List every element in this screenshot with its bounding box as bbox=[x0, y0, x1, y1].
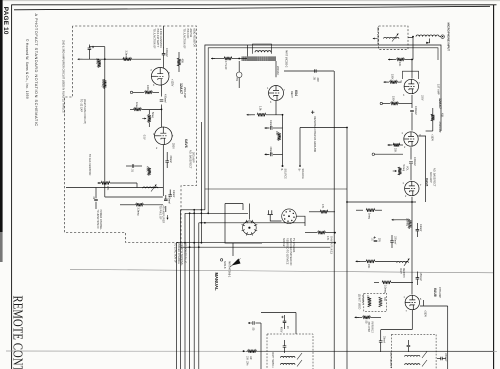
svg-text:SOCKET: SOCKET bbox=[282, 238, 285, 248]
capacitor 180mmf c bbox=[441, 357, 442, 360]
label source B+ bbox=[299, 165, 301, 167]
bundle wire 3 bbox=[189, 213, 191, 369]
bundle wire 5 bbox=[198, 223, 200, 369]
svg-text:PART: PART bbox=[399, 268, 402, 275]
capacitor elec 01-25 bbox=[374, 240, 378, 241]
mic arrow left bbox=[373, 38, 378, 40]
svg-text:IN RUN 13: IN RUN 13 bbox=[371, 322, 373, 334]
mic input terminal bbox=[441, 35, 444, 38]
svg-text:PART MER38-5: PART MER38-5 bbox=[389, 352, 392, 369]
resistor 100K grid bbox=[133, 91, 144, 93]
svg-text:1meg: 1meg bbox=[135, 102, 138, 109]
svg-text:20K: 20K bbox=[367, 264, 370, 269]
resistor 3.3 h bbox=[98, 182, 102, 184]
wire mic junction bbox=[412, 37, 414, 60]
wire plug to socket bbox=[270, 218, 281, 221]
TB2 cap bbox=[407, 345, 411, 346]
svg-text:TO .02 CAP: TO .02 CAP bbox=[80, 99, 83, 112]
svg-text:30mmf: 30mmf bbox=[382, 336, 384, 343]
mic input coil bbox=[416, 35, 439, 37]
mic transformer coil bbox=[384, 37, 400, 38]
svg-text:PART MIC280-2: PART MIC280-2 bbox=[285, 50, 288, 68]
ac plug P1 bbox=[268, 210, 273, 218]
svg-text:© Howard W. Sams & Co., Inc. 1: © Howard W. Sams & Co., Inc. 1959 bbox=[25, 39, 29, 99]
svg-text:POWER CHANNEL: POWER CHANNEL bbox=[99, 210, 102, 231]
ground arrow feed bbox=[78, 58, 83, 60]
svg-text:4TH AMPLIFIER: 4TH AMPLIFIER bbox=[162, 206, 165, 224]
TB1 cap bbox=[283, 346, 287, 347]
svg-text:OHM IN RUN 13: OHM IN RUN 13 bbox=[329, 236, 332, 254]
volume 5meg right bbox=[398, 167, 401, 175]
svg-text:100K: 100K bbox=[366, 295, 368, 301]
svg-text:40mmf: 40mmf bbox=[269, 147, 272, 155]
svg-text:+125V: +125V bbox=[171, 79, 174, 87]
bundle wire 6 bbox=[200, 122, 202, 243]
svg-text:SOURCE: SOURCE bbox=[284, 169, 287, 180]
wire cap to bus bbox=[88, 53, 90, 59]
wire 4th cath bbox=[447, 306, 449, 369]
resistor 3.3meg c bbox=[374, 281, 379, 283]
frame 1st amp box bbox=[403, 71, 419, 79]
volume pot 5meg bbox=[148, 115, 151, 123]
wire plate bus bbox=[347, 201, 416, 203]
svg-text:TO JUNCTION OF: TO JUNCTION OF bbox=[96, 210, 98, 230]
svg-text:A PHOTOFACT STANDARD NOTATION: A PHOTOFACT STANDARD NOTATION SCHEMATIC bbox=[34, 14, 39, 127]
resistor 47 MW bbox=[211, 58, 215, 60]
svg-text:30V: 30V bbox=[316, 78, 319, 83]
resistor 1.5k bbox=[247, 114, 252, 116]
svg-text:5 meg: 5 meg bbox=[402, 165, 405, 172]
svg-text:450V: 450V bbox=[280, 327, 282, 333]
capacitor .05 30V bbox=[315, 69, 316, 73]
resistor 20K grid3 bbox=[388, 144, 392, 146]
fold line lower bbox=[6, 350, 497, 353]
tube V6 3rd amp bbox=[405, 181, 419, 195]
svg-text:20K: 20K bbox=[394, 148, 397, 153]
svg-text:RECT: RECT bbox=[290, 91, 293, 98]
svg-text:1meg: 1meg bbox=[96, 58, 99, 65]
TB1 coil 1 bbox=[281, 356, 295, 357]
tube V2A 2nd amp bbox=[151, 68, 169, 86]
svg-text:MANUAL: MANUAL bbox=[214, 273, 219, 292]
svg-text:100K: 100K bbox=[391, 74, 394, 80]
svg-text:PART #TSA8-1: PART #TSA8-1 bbox=[228, 261, 231, 278]
bundle wire 1 bbox=[180, 210, 182, 369]
junction main bus bbox=[104, 58, 106, 60]
svg-text:PIN 1 1ST AMP 7: PIN 1 1ST AMP 7 bbox=[156, 29, 159, 48]
svg-text:40mmf: 40mmf bbox=[269, 120, 272, 128]
wire cathode bottom h bbox=[105, 196, 163, 198]
capacitor 180mmf b bbox=[416, 278, 420, 279]
svg-text:47K: 47K bbox=[106, 186, 109, 191]
svg-text:4TH AMP: 4TH AMP bbox=[438, 287, 441, 298]
capacitor 400mmf input bbox=[162, 54, 166, 55]
TB2 switch slash bbox=[422, 352, 427, 359]
terminal grid3 bbox=[372, 153, 374, 155]
capacitor 400mmf chain2 bbox=[410, 147, 412, 159]
svg-text:40mmf: 40mmf bbox=[172, 190, 175, 198]
svg-text:TO JUNCTION OF: TO JUNCTION OF bbox=[153, 29, 156, 50]
capacitor 40mmf d bbox=[265, 153, 269, 155]
svg-text:TV CHASSIS: TV CHASSIS bbox=[292, 238, 295, 253]
svg-text:PART TRA80-1: PART TRA80-1 bbox=[271, 352, 274, 368]
capacitor 40mmf b bbox=[164, 199, 168, 200]
resistor 3.3meg horiz bbox=[123, 58, 132, 61]
svg-text:180mmf: 180mmf bbox=[394, 236, 396, 245]
svg-text:+150V: +150V bbox=[431, 134, 434, 141]
resistor 100K grid2 bbox=[383, 103, 391, 105]
svg-text:REWIRED TO SERVICE: REWIRED TO SERVICE bbox=[286, 238, 289, 265]
TB2 coil 2 bbox=[405, 364, 421, 365]
transformer T1 primary coil bbox=[253, 44, 272, 54]
svg-text:TO PIN 1 OF: TO PIN 1 OF bbox=[158, 206, 161, 220]
svg-text:25V: 25V bbox=[378, 238, 380, 243]
svg-text:(4AM PLATE CIRCUIT): (4AM PLATE CIRCUIT) bbox=[83, 99, 86, 124]
svg-text:POWER CHANNEL: POWER CHANNEL bbox=[177, 243, 180, 265]
svg-text:12AX7: 12AX7 bbox=[438, 98, 442, 109]
svg-text:250V: 250V bbox=[171, 143, 174, 149]
wire socket route bbox=[225, 203, 243, 205]
svg-text:B-: B- bbox=[280, 169, 283, 172]
svg-text:33K: 33K bbox=[383, 297, 385, 302]
terminal left grid bbox=[130, 91, 132, 93]
resistor 1meg plate bbox=[356, 209, 363, 211]
socket SO1 8pin bbox=[242, 220, 258, 236]
svg-text:3.3meg: 3.3meg bbox=[125, 51, 128, 60]
TB1 switch slash bbox=[297, 353, 302, 360]
wire 6X4 cathode bbox=[275, 101, 277, 115]
svg-text:400mmf: 400mmf bbox=[164, 94, 167, 103]
label source B- bbox=[282, 165, 284, 167]
wire cap18 top bbox=[89, 46, 104, 48]
rail bottom wire bbox=[246, 350, 493, 352]
note denotes chassis ground bbox=[311, 111, 314, 114]
resistor 100K grid1 bbox=[384, 81, 388, 83]
svg-text:(2) NOT USED: (2) NOT USED bbox=[358, 294, 360, 310]
tube V3A 3rd amp bbox=[155, 127, 173, 145]
svg-text:47K: 47K bbox=[321, 204, 324, 209]
fold line mid bbox=[70, 269, 493, 272]
svg-text:10K 10%: 10K 10% bbox=[246, 356, 248, 365]
svg-text:3.3meg: 3.3meg bbox=[384, 285, 387, 294]
wire top feed bbox=[78, 58, 161, 60]
TB1 coil 2 bbox=[281, 363, 295, 364]
svg-text:10K: 10K bbox=[398, 62, 401, 67]
capacitor 40mmf e bbox=[416, 230, 420, 231]
svg-text:2ND & 3RD AMPLIFIER CIRCUIT US: 2ND & 3RD AMPLIFIER CIRCUIT USED IN RUNS… bbox=[62, 40, 66, 114]
resistor 3.3meg b bbox=[408, 220, 411, 229]
wire v5 plate down bbox=[418, 136, 425, 202]
svg-text:1ST AMP: 1ST AMP bbox=[437, 84, 440, 95]
label 4th amp plate v bbox=[423, 300, 425, 306]
svg-text:-3.5V: -3.5V bbox=[143, 134, 145, 140]
resistor 470K bbox=[148, 167, 151, 175]
resistor 45K chain bbox=[431, 114, 434, 121]
tube V7 4th amp bbox=[405, 295, 419, 309]
capacitor .01 bbox=[132, 164, 133, 168]
svg-text:SON-8: SON-8 bbox=[223, 261, 226, 269]
svg-text:IN RUN 1: IN RUN 1 bbox=[361, 295, 363, 306]
bundle wire 2 bbox=[184, 213, 186, 369]
resistor 10K mic bbox=[388, 59, 393, 61]
svg-text:33K OHM: 33K OHM bbox=[367, 322, 369, 332]
svg-text:3RD AMP: 3RD AMP bbox=[429, 172, 432, 183]
wire b plus to bus bbox=[300, 127, 347, 129]
svg-text:180mmf: 180mmf bbox=[419, 273, 421, 282]
mic dashed box bbox=[379, 26, 408, 49]
capacitor .05 out bbox=[248, 322, 252, 324]
capacitor 40mmf a bbox=[168, 195, 172, 196]
svg-text:AMP 16: AMP 16 bbox=[189, 29, 192, 38]
left box bottom stub wires bbox=[165, 206, 167, 212]
top border inner line bbox=[14, 6, 490, 10]
resistor 45K vert bbox=[177, 58, 180, 66]
svg-text:PART MIC280-1: PART MIC280-1 bbox=[376, 27, 379, 45]
transformer box TB1 bbox=[267, 334, 313, 369]
svg-text:100K: 100K bbox=[392, 96, 395, 102]
bundle h 5 bbox=[181, 246, 330, 248]
svg-text:45K: 45K bbox=[181, 59, 185, 64]
svg-text:20K: 20K bbox=[275, 131, 278, 136]
svg-text:PIN 3 OF: PIN 3 OF bbox=[186, 29, 189, 40]
bundle wire 4 bbox=[193, 210, 195, 369]
svg-text:6X4: 6X4 bbox=[294, 90, 298, 96]
right section border inner bbox=[208, 48, 438, 214]
wire chain top bbox=[411, 60, 413, 79]
resistor .05 4th bbox=[355, 316, 360, 318]
svg-text:6AU6: 6AU6 bbox=[433, 288, 437, 297]
wire input top bbox=[163, 26, 165, 48]
wire chain v6 down bbox=[411, 197, 413, 295]
svg-text:TO JUNCTION OF: TO JUNCTION OF bbox=[183, 29, 186, 50]
capacitor 30mmf bbox=[379, 341, 383, 342]
bundle h 2 bbox=[185, 212, 248, 214]
svg-text:TO 4EK RESISTOR: TO 4EK RESISTOR bbox=[88, 154, 91, 176]
svg-text:3.3meg: 3.3meg bbox=[101, 79, 104, 88]
resistor 1meg vert bbox=[98, 60, 101, 68]
svg-text:400mmf: 400mmf bbox=[165, 48, 168, 57]
svg-text:47K: 47K bbox=[326, 236, 329, 241]
svg-text:AMPLIFIER INSTEAD OF: AMPLIFIER INSTEAD OF bbox=[289, 238, 292, 266]
svg-text:+250V: +250V bbox=[424, 310, 427, 317]
coil driver bbox=[397, 261, 409, 262]
tube V5 2nd amp bbox=[404, 132, 418, 146]
svg-text:& 20K RESISTOR: & 20K RESISTOR bbox=[159, 29, 162, 49]
svg-text:12AX7: 12AX7 bbox=[179, 83, 183, 94]
transformer box TB2 bbox=[392, 334, 437, 369]
svg-text:180mmf: 180mmf bbox=[444, 353, 446, 362]
wire output h bbox=[381, 329, 412, 331]
svg-text:45K: 45K bbox=[441, 113, 444, 118]
svg-text:600Ω RESISTOR: 600Ω RESISTOR bbox=[192, 29, 195, 48]
transformer T1 core bbox=[242, 56, 276, 61]
svg-text:6AV6: 6AV6 bbox=[184, 139, 188, 148]
svg-text:150V: 150V bbox=[421, 95, 423, 101]
pilot meter PM bbox=[236, 72, 242, 78]
socket SO2 dots bbox=[282, 209, 297, 224]
svg-text:20mmf: 20mmf bbox=[169, 156, 172, 164]
svg-text:5meg: 5meg bbox=[151, 112, 154, 119]
top border line bbox=[12, 4, 497, 6]
svg-text:VOL: VOL bbox=[405, 166, 408, 171]
svg-text:3.3meg: 3.3meg bbox=[137, 208, 140, 217]
bundle stub left bbox=[176, 243, 178, 369]
bundle h 1 bbox=[181, 209, 205, 211]
svg-text:PM: PM bbox=[235, 78, 238, 82]
wire T1 leads bbox=[247, 45, 249, 56]
svg-text:100K: 100K bbox=[146, 85, 149, 91]
capacitor 400mmf chain1 bbox=[411, 95, 413, 108]
svg-text:2ND AMP: 2ND AMP bbox=[438, 122, 441, 133]
capacitor 18 bbox=[88, 48, 92, 49]
bundle h 3 bbox=[199, 222, 305, 224]
wire b minus rail bbox=[282, 115, 284, 166]
svg-text:40mmf: 40mmf bbox=[419, 224, 422, 232]
page margin black bar bbox=[0, 0, 3, 232]
svg-text:40mmf: 40mmf bbox=[167, 197, 170, 205]
terminal grid2 bbox=[380, 102, 382, 104]
tube V4 1st amp bbox=[404, 79, 418, 93]
svg-text:470K: 470K bbox=[145, 166, 148, 172]
svg-text:400mmf: 400mmf bbox=[413, 157, 416, 166]
resistor 10K 1W bbox=[243, 350, 245, 352]
mic coil arrow bbox=[426, 39, 430, 43]
TB2 coil 1 bbox=[405, 355, 421, 356]
svg-text:NO. BASE/RECT: NO. BASE/RECT bbox=[188, 150, 191, 169]
scan top edge bbox=[0, 0, 500, 2]
svg-text:1meg: 1meg bbox=[368, 213, 371, 220]
rail x347 bbox=[346, 128, 348, 369]
wire out v1 bbox=[260, 323, 262, 369]
capacitor 20-450 bbox=[283, 321, 287, 322]
svg-text:REMOTE CONTROL: REMOTE CONTROL bbox=[10, 296, 26, 369]
resistor 47K b bbox=[305, 232, 317, 234]
svg-text:MICROPHONE INPUT: MICROPHONE INPUT bbox=[447, 23, 451, 52]
svg-text:DENOTES CHASSIS GROUND: DENOTES CHASSIS GROUND bbox=[313, 117, 316, 153]
svg-text:TO JUNCTION OF: TO JUNCTION OF bbox=[174, 243, 177, 264]
left border line bbox=[11, 5, 13, 369]
frame h mid bbox=[205, 188, 347, 190]
capacitor 20mmf bbox=[165, 161, 169, 162]
svg-text:3.3meg: 3.3meg bbox=[406, 218, 409, 227]
svg-text:MER38-5: MER38-5 bbox=[402, 268, 404, 278]
resistor 47K a bbox=[309, 211, 320, 213]
svg-text:3RD AMP: 3RD AMP bbox=[192, 152, 195, 163]
capacitor left edge bbox=[95, 188, 97, 199]
rail x335 bbox=[333, 71, 335, 369]
junction rail1 bbox=[346, 127, 348, 129]
svg-text:400mmf: 400mmf bbox=[414, 106, 417, 115]
connector wedge bbox=[232, 259, 241, 266]
wire grid3 bbox=[375, 153, 404, 155]
right border line bbox=[493, 5, 495, 369]
right section border outer bbox=[205, 45, 441, 210]
svg-text:47 M.W.: 47 M.W. bbox=[224, 61, 227, 70]
svg-text:PAGE 10: PAGE 10 bbox=[2, 7, 9, 35]
svg-text:1.5k: 1.5k bbox=[259, 106, 262, 111]
wire tube cathode down bbox=[161, 85, 163, 97]
wire bus vert main bbox=[104, 47, 106, 197]
run box 100K bbox=[364, 293, 387, 311]
wire v7 down bbox=[411, 310, 413, 330]
svg-text:SOURCE: SOURCE bbox=[301, 169, 304, 180]
left amplifier dashed box bbox=[65, 26, 197, 242]
arrow down 4th bbox=[166, 215, 168, 220]
wire cathode V3 bbox=[162, 145, 164, 196]
coil osc left bbox=[66, 187, 163, 189]
resistor 3.3meg vert bbox=[103, 80, 106, 89]
capacitor 40mmf c bbox=[265, 127, 269, 129]
wire out h bbox=[261, 312, 296, 314]
wire 6X4 plate right bbox=[284, 70, 334, 72]
resistor 1meg h2 bbox=[130, 108, 134, 110]
resistor 3.3meg low bbox=[120, 204, 136, 206]
bundle h 4 bbox=[177, 242, 336, 244]
resistor 20K bias bbox=[278, 133, 281, 141]
capacitor 400mmf interstage bbox=[160, 100, 164, 101]
resistor 20K driver bbox=[356, 260, 361, 262]
tube V1 rect 6X4 bbox=[269, 86, 284, 101]
capacitor 180mmf a bbox=[390, 241, 394, 242]
svg-text:6AV6: 6AV6 bbox=[424, 178, 428, 186]
